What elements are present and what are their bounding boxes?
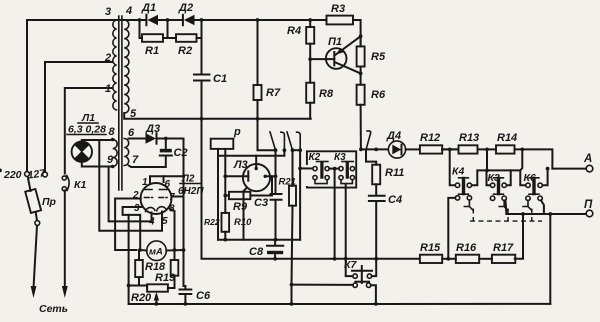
tube Л2 envelope (141, 183, 172, 214)
resistor R7 (254, 18, 262, 121)
resistor R16 (456, 255, 492, 263)
svg-text:Л3: Л3 (233, 159, 248, 171)
svg-text:С2: С2 (174, 147, 188, 159)
svg-text:К6: К6 (524, 172, 536, 184)
relay К4 contacts (455, 177, 473, 211)
svg-text:R3: R3 (331, 3, 345, 15)
wire К2-К3 connector with drop to row (329, 167, 339, 261)
meter мА (138, 241, 183, 261)
capacitor C2 (129, 139, 172, 168)
svg-text:Д4: Д4 (386, 130, 401, 142)
svg-text:С8: С8 (249, 246, 264, 258)
svg-text:К7: К7 (344, 259, 357, 271)
transformer Тр1 core (119, 16, 122, 190)
tube Л2 anode cap pins 1,6 (150, 176, 184, 183)
wire C1 line down to resistor row (202, 119, 420, 259)
wire К4 lower-left to row (448, 198, 455, 259)
resistor R10 (222, 196, 230, 242)
svg-text:С6: С6 (196, 290, 211, 302)
svg-text:С3: С3 (254, 197, 268, 209)
wire top rail from terminal 3 to R3 (27, 20, 361, 46)
svg-text:R14: R14 (497, 132, 517, 144)
relay р contact pair 1 (218, 119, 286, 177)
svg-text:R10: R10 (234, 217, 252, 228)
resistor R9 (223, 176, 272, 199)
wire pin8 to meter right (169, 208, 175, 250)
svg-text:3: 3 (134, 203, 140, 214)
wire К3 bracket drop to К7 (344, 185, 353, 277)
wire bridge К3-К6 (0, 149, 522, 185)
svg-text:R13: R13 (459, 132, 479, 144)
svg-text:А: А (583, 153, 592, 165)
svg-text:8: 8 (109, 126, 116, 138)
wire pin3 (123, 207, 142, 250)
wire terminal 2 tap (45, 62, 112, 172)
svg-text:7: 7 (132, 154, 139, 166)
resistor R14 (496, 145, 552, 168)
svg-text:R4: R4 (287, 25, 301, 37)
relay К3 contact group (339, 162, 355, 184)
transformer winding 6-7 (124, 139, 129, 166)
svg-text:R9: R9 (233, 201, 248, 213)
resistor R5 (357, 36, 365, 73)
svg-text:6: 6 (128, 127, 135, 139)
wire R17 riser (515, 214, 523, 259)
resistor R13 (442, 145, 496, 153)
wire bridge К6 to А (542, 169, 547, 186)
svg-text:6Н2П: 6Н2П (178, 186, 204, 197)
resistor R17 (492, 255, 515, 263)
svg-text:С4: С4 (388, 194, 402, 206)
wire mains left lead with arrow (31, 226, 37, 299)
button К7 lower contact (292, 283, 378, 306)
diode Д4 (388, 141, 419, 158)
relay block К2 К3 outline (307, 151, 356, 187)
resistor R19 (168, 250, 178, 288)
svg-text:П: П (584, 199, 593, 211)
svg-text:С1: С1 (213, 73, 227, 85)
capacitor C4 (369, 196, 385, 261)
svg-text:Сеть: Сеть (39, 303, 68, 315)
resistor R12 (420, 145, 456, 153)
tube Л3 (223, 156, 277, 240)
svg-text:R7: R7 (266, 87, 281, 99)
svg-text:Пр: Пр (42, 196, 57, 208)
switch К1 (62, 176, 69, 191)
svg-text:р: р (233, 126, 241, 138)
resistor R6 (357, 73, 365, 149)
wire terminal 5 to bus (124, 113, 311, 119)
wire К6 lower-right to П line (541, 200, 544, 214)
terminal П (506, 210, 592, 217)
transformer primary winding 1-2-3 (113, 20, 117, 110)
wire mains right lead with arrow (62, 191, 68, 299)
resistor R3 (327, 16, 354, 25)
relay К3 contacts (490, 177, 508, 211)
fuse Пр (25, 178, 41, 225)
svg-text:4: 4 (125, 5, 132, 17)
diode Д1 (140, 15, 159, 25)
wire terminal 1 tap (65, 88, 112, 174)
transformer heater winding 8-9 (111, 138, 117, 169)
svg-text:R8: R8 (319, 88, 334, 100)
svg-text:R17: R17 (493, 242, 514, 254)
wire heater pin4 (109, 167, 152, 222)
relay coil р (211, 139, 234, 240)
svg-text:R11: R11 (385, 167, 404, 179)
svg-text:9: 9 (107, 154, 114, 166)
relay р contact pair 2 (287, 132, 313, 240)
wire bus riser (128, 215, 130, 304)
svg-text:R2: R2 (178, 45, 192, 57)
svg-text:R12: R12 (420, 132, 440, 144)
svg-text:R19: R19 (155, 272, 176, 284)
relay К2 contact group (313, 162, 329, 184)
wire bottom bus (129, 302, 551, 306)
svg-text:3: 3 (105, 6, 111, 18)
contact lever at Д4 line (359, 131, 389, 165)
svg-text:R20: R20 (131, 292, 152, 304)
wire heater pin5 (99, 140, 162, 231)
svg-text:П1: П1 (328, 36, 342, 48)
svg-text:1: 1 (105, 83, 111, 95)
wire К3 lower-right to П line (506, 200, 524, 214)
svg-text:Д1: Д1 (141, 2, 156, 14)
wire pin2 grid (115, 199, 141, 251)
resistor R11 (372, 148, 380, 196)
svg-text:R6: R6 (371, 89, 386, 101)
svg-text:К1: К1 (74, 179, 86, 191)
svg-text:2: 2 (104, 52, 111, 64)
svg-text:R5: R5 (371, 51, 386, 63)
terminal А (546, 165, 593, 172)
resistor R2 (168, 18, 204, 42)
mechanical link dashed (470, 209, 542, 222)
capacitor C3 (271, 176, 282, 241)
svg-text:R16: R16 (456, 242, 477, 254)
button К7 (352, 259, 376, 283)
lamp Л1 (72, 142, 92, 162)
potentiometer R20 (127, 284, 168, 304)
diode Д3 (129, 133, 184, 143)
transistor П1 (310, 34, 362, 75)
wire pin7 stub (172, 196, 184, 198)
resistor R15 (420, 255, 456, 263)
resistor R21 (289, 186, 296, 304)
label Л1 6,3 0,28 (67, 112, 106, 136)
wire anode supply line to C6 (182, 139, 186, 287)
relay К6 contacts (523, 177, 542, 211)
resistor R8 (306, 57, 314, 119)
wire lamp loop (82, 140, 113, 167)
wire drop to К4 (450, 149, 456, 185)
label Л2 6Н2П (178, 174, 204, 198)
capacitor C1 (194, 20, 210, 121)
transformer secondary HV winding 4-5 (124, 20, 129, 113)
capacitor C6 (180, 286, 192, 306)
wire bridge К4-К3 (472, 149, 526, 185)
resistor R18 (135, 250, 143, 286)
svg-text:Д2: Д2 (178, 2, 193, 14)
svg-text:К4: К4 (452, 166, 464, 178)
resistor R4 (306, 18, 314, 59)
svg-text:220: 220 (3, 169, 22, 181)
svg-text:R21: R21 (279, 177, 296, 188)
wire П drop to bottom bus (549, 214, 551, 304)
svg-text:R15: R15 (420, 242, 441, 254)
wire 127 tap circle (43, 172, 48, 177)
svg-text:мА: мА (149, 247, 163, 258)
svg-text:R1: R1 (145, 45, 159, 57)
wire mains 220 tap circle (25, 172, 30, 177)
svg-text:R22: R22 (204, 217, 220, 227)
svg-text:Д3: Д3 (145, 123, 160, 135)
wire middle bus R10/C3/C8 (218, 239, 300, 241)
capacitor C8 (267, 240, 283, 261)
wire 220 tap down (26, 20, 28, 172)
resistor R1 (138, 18, 170, 42)
svg-text:К3: К3 (488, 172, 500, 184)
diode Д2 (183, 15, 195, 25)
